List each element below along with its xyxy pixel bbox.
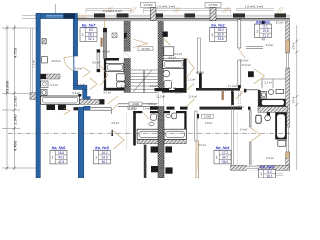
svg-text:42.3: 42.3: [58, 160, 64, 164]
stairwell right wall: [158, 21, 163, 89]
svg-text:Кв. №7: Кв. №7: [82, 23, 96, 28]
toilet F: [151, 114, 157, 120]
stairwell left wall: [124, 21, 130, 93]
cabinet: [164, 47, 174, 56]
svg-text:11.2 м²: 11.2 м²: [156, 95, 165, 99]
svg-text:0.000: 0.000: [204, 115, 211, 119]
dotted partition: [237, 91, 239, 110]
svg-text:6.2 м²: 6.2 м²: [266, 43, 274, 47]
wall stub lower left: [112, 130, 114, 136]
hatch under bathtub G: [164, 140, 186, 144]
sink A: [116, 74, 125, 81]
left hatch wall: [30, 93, 36, 100]
svg-text:4.750: 4.750: [13, 47, 18, 58]
shaft box: [42, 57, 48, 63]
bathtub G: [164, 129, 186, 139]
section dash line: [8, 132, 290, 134]
svg-text:4.000: 4.000: [129, 107, 136, 110]
svg-text:2.7 м²: 2.7 м²: [168, 86, 176, 90]
shaft box with X: [112, 33, 117, 38]
svg-text:2.730: 2.730: [13, 96, 18, 107]
wall: top exterior double line: [78, 19, 291, 21]
svg-text:1: 1: [95, 156, 97, 160]
door leaf corridor: [222, 91, 224, 100]
hall partition wall: [97, 50, 100, 73]
svg-text:КЛ000: КЛ000: [196, 70, 205, 74]
wire: top balcony rails: [86, 9, 274, 14]
window W3: [150, 13, 163, 17]
svg-text:1: 1: [216, 156, 218, 160]
svg-text:4.5 м²: 4.5 м²: [111, 121, 119, 125]
door leaf brown: [101, 38, 103, 47]
stairs diagonal: [133, 70, 152, 92]
svg-text:17.0 м²: 17.0 м²: [241, 63, 250, 67]
svg-text:1: 1: [260, 172, 262, 176]
blue wall: left vertical: [36, 13, 40, 178]
svg-text:23.8 м²: 23.8 м²: [51, 59, 60, 63]
stairs treads: [130, 51, 158, 93]
svg-text:36.0: 36.0: [222, 160, 228, 164]
door V hall 2: [90, 78, 97, 90]
blue wall: right vertical lower part: [73, 71, 77, 85]
svg-text:1: 1: [256, 29, 258, 33]
svg-text:17.2 м²: 17.2 м²: [228, 84, 237, 88]
door swing arc apartment room: [64, 57, 73, 71]
apartment5 interior wall: [90, 108, 111, 114]
svg-text:21.2: 21.2: [262, 34, 268, 38]
svg-text:Кв. №6: Кв. №6: [52, 145, 66, 150]
blue wall: stem: [78, 107, 84, 178]
balcony rail bottom right: [258, 173, 283, 175]
wall x262 lower part: [262, 28, 264, 40]
svg-text:5.2 м²: 5.2 м²: [72, 91, 80, 95]
apartment table 2: [255, 19, 272, 38]
door gap in stairwell left wall: [124, 52, 131, 59]
svg-text:6.0 м²: 6.0 м²: [102, 50, 110, 54]
svg-text:40.3: 40.3: [58, 155, 64, 159]
wall x198 segment (apartment 1): [198, 38, 201, 74]
lower wing right wall top cap: [196, 114, 199, 119]
svg-text:8.1 м²: 8.1 м²: [276, 21, 284, 25]
wall: interior vertical x104: [103, 28, 107, 59]
window W5: [233, 13, 245, 17]
blue wall: apartment top: [36, 13, 78, 18]
svg-text:1.1 м²: 1.1 м²: [188, 78, 196, 82]
svg-text:34.7: 34.7: [222, 155, 228, 159]
corridor wall lower (double): [118, 104, 157, 107]
stack label box 2: [205, 2, 221, 7]
vent block on wall: [124, 33, 127, 38]
dimension texts: [5, 47, 18, 151]
cabinet under tub E: [278, 141, 286, 147]
door V apartment 1 closet: [187, 58, 195, 78]
right exterior wall: [286, 21, 290, 53]
black blocks below bathtub: [47, 105, 56, 110]
svg-text:Кв. №1: Кв. №1: [211, 23, 225, 28]
apartment table 4: [214, 145, 231, 164]
vent box in apartment: [42, 39, 46, 44]
apartment table 5: [94, 145, 111, 164]
svg-text:СГ720: СГ720: [144, 3, 153, 7]
balcony break marks: [106, 7, 284, 13]
window in bottom wall: [247, 165, 258, 170]
toilet G: [172, 113, 177, 119]
stack label box 1: [141, 2, 156, 7]
dimension lines left: [2, 25, 36, 170]
vent stack VS2: [210, 8, 216, 21]
bottom wall hatch: [231, 165, 290, 170]
wall x262 stub: [262, 21, 265, 28]
bathtub E (vertical): [275, 113, 287, 140]
partition wall in apartment: [40, 74, 60, 79]
wall y47 double: [246, 46, 263, 48]
bathtub C (apartment 6): [41, 96, 80, 104]
svg-text:СР-4: СР-4: [292, 96, 296, 103]
lower wing bathroom left: wall: [133, 111, 136, 146]
door V at stem: [64, 108, 70, 115]
bathtub A: [106, 63, 124, 71]
elevation box 0.000: [129, 102, 142, 106]
blue wall: tick: [87, 97, 90, 100]
sink G: [166, 114, 171, 118]
bathroom B walls: [162, 59, 187, 93]
door V hall 1: [83, 67, 90, 77]
svg-text:1: 1: [52, 156, 54, 160]
window W4: [185, 13, 196, 17]
doors (tan): [78, 15, 271, 170]
vent block: [162, 32, 167, 37]
wall x200 closet: [199, 73, 202, 89]
wall x231 segments: [238, 20, 241, 48]
svg-text:СР-4: СР-4: [292, 42, 296, 49]
elevation box 2: [128, 106, 136, 109]
wire: antenna line: [54, 4, 56, 13]
window W1: [94, 13, 105, 17]
corridor top wall segments: [155, 88, 170, 91]
svg-text:Кв. №5: Кв. №5: [95, 145, 109, 150]
svg-text:32.0: 32.0: [217, 33, 223, 37]
svg-text:1: 1: [82, 33, 84, 37]
svg-text:26.1: 26.1: [88, 33, 94, 37]
right margin dimension line: [296, 25, 298, 170]
lower wing right wall: [195, 111, 197, 141]
door jamb line in blue wall: [73, 56, 75, 71]
svg-text:4.460: 4.460: [13, 140, 18, 151]
bathtub B: [163, 60, 184, 68]
svg-text:2.6 м²: 2.6 м²: [143, 106, 151, 110]
wall: black segment left of stem: [74, 107, 79, 110]
window on blue wall: [64, 13, 76, 18]
svg-text:6.2: 6.2: [267, 170, 272, 174]
fixture box in apartment: [41, 81, 48, 87]
svg-text:18.6: 18.6: [58, 151, 64, 155]
svg-text:2.2 м²: 2.2 м²: [150, 84, 158, 88]
svg-text:34.9: 34.9: [101, 155, 107, 159]
partition x250: [249, 110, 251, 127]
svg-text:4.1 м²: 4.1 м²: [103, 90, 111, 94]
sink D circle: [268, 89, 273, 94]
vent marker black square: [78, 94, 81, 96]
svg-text:1.7 м²: 1.7 м²: [121, 85, 129, 89]
svg-text:СГ700: СГ700: [209, 3, 218, 7]
hatch under bathtub F: [137, 140, 160, 144]
svg-text:3.0 м²: 3.0 м²: [198, 143, 206, 147]
vent block apartment 2: [248, 71, 254, 77]
sink D rect: [276, 89, 283, 93]
vent stack VS1: [150, 8, 156, 21]
svg-text:1.8 м²(1.5 м²): 1.8 м²(1.5 м²): [245, 5, 264, 9]
svg-text:8.0 м²: 8.0 м²: [92, 61, 100, 65]
svg-text:18.3: 18.3: [217, 28, 223, 32]
svg-text:4.2 м²: 4.2 м²: [50, 83, 58, 87]
stair label box: [138, 46, 153, 51]
svg-text:Кв. №2: Кв. №2: [256, 19, 270, 24]
svg-text:4.6 м²: 4.6 м²: [168, 55, 176, 59]
tan door blocks on right wall: [286, 40, 290, 52]
sink B: [163, 70, 170, 77]
svg-text:7.1 м²: 7.1 м²: [32, 60, 36, 68]
svg-text:1: 1: [211, 33, 213, 37]
toilet A: [117, 82, 126, 88]
apartment table 1: [210, 23, 227, 42]
toilet E: [256, 115, 261, 123]
svg-text:18.1: 18.1: [266, 174, 272, 178]
svg-text:8.0: 8.0: [89, 28, 94, 32]
balcony rail left: [22, 16, 36, 93]
vent block E: [267, 113, 270, 116]
svg-text:2.4 м²: 2.4 м²: [241, 59, 249, 63]
hatch band bathroom D: [258, 107, 288, 113]
wire: top glazing lines: [78, 15, 291, 17]
svg-text:3.8 м²: 3.8 м²: [205, 121, 213, 125]
svg-text:17.2: 17.2: [222, 151, 228, 155]
blue wall: nub right of stem: [84, 106, 90, 110]
svg-text:СГ700: СГ700: [141, 47, 150, 51]
lower wing left wall: [144, 145, 147, 178]
corridor bottom wall segments: [150, 107, 159, 110]
hatch band right of bathtub: [80, 99, 105, 104]
svg-text:19.8: 19.8: [262, 29, 268, 33]
svg-text:1.940: 1.940: [13, 114, 18, 125]
top area texts: [103, 5, 263, 14]
window right 1: [286, 53, 288, 152]
svg-text:11.6 м²: 11.6 м²: [188, 95, 197, 99]
door leaf apartment 7: [104, 19, 106, 28]
lower wing crosshatch wall: [158, 107, 164, 178]
dimension ticks: [6, 27, 16, 170]
sink E: [265, 115, 271, 121]
svg-text:4.0 м²: 4.0 м²: [75, 66, 83, 70]
svg-text:2.0 м²: 2.0 м²: [266, 156, 274, 160]
blue wall: jog vertical: [83, 90, 87, 100]
apartment table 3: [259, 164, 276, 178]
dotted dim line right room: [237, 112, 239, 165]
svg-text:2.6 м²: 2.6 м²: [236, 105, 244, 109]
furniture blocks: [151, 146, 158, 152]
svg-text:Кв. №4: Кв. №4: [216, 145, 230, 150]
blue wall: jog horizontal: [73, 85, 87, 89]
svg-text:Кв. №3: Кв. №3: [260, 164, 274, 169]
svg-text:1.5 м²: 1.5 м²: [77, 83, 85, 87]
closet wall: [262, 78, 286, 80]
dotted extension line: [125, 112, 127, 150]
bathroom D left wall: [258, 90, 261, 112]
svg-text:3.2 м²: 3.2 м²: [264, 81, 272, 85]
bathtub D: [260, 99, 286, 107]
svg-text:73.800: 73.800: [5, 80, 10, 93]
svg-text:1.3 м²: 1.3 м²: [175, 90, 183, 94]
apartment table 7: [80, 23, 97, 42]
window W2: [117, 13, 129, 17]
svg-text:1.6 м²(1.3 м²): 1.6 м²(1.3 м²): [157, 5, 176, 9]
svg-text:6.1: 6.1: [263, 25, 268, 29]
svg-text:16.2: 16.2: [101, 151, 107, 155]
svg-text:33.6: 33.6: [217, 37, 223, 41]
room labels: [50, 21, 283, 161]
lower wing bathroom right: walls: [164, 111, 170, 113]
blue wall: right vertical upper: [73, 19, 77, 56]
window W6: [275, 13, 287, 17]
washing machine apartment 6: [41, 90, 47, 96]
svg-text:32.1: 32.1: [88, 37, 94, 41]
bathroom A walls: [104, 59, 106, 91]
lower wing crosshatch wall: dotted part in corridor: [158, 91, 160, 106]
svg-text:2.2 м²(1.9 м²): 2.2 м²(1.9 м²): [103, 9, 122, 13]
svg-text:36.1: 36.1: [101, 160, 107, 164]
apartment table 6: [50, 145, 67, 164]
toilet B: [164, 81, 172, 89]
washing machine: [261, 92, 267, 99]
bathtub F: [137, 129, 160, 139]
svg-text:0.000: 0.000: [132, 102, 139, 106]
sink F: [149, 122, 154, 126]
svg-text:2.4 м²: 2.4 м²: [240, 128, 248, 132]
